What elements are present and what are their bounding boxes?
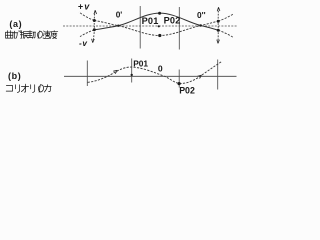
arrowhead on curve right half	[197, 75, 201, 79]
振	[20, 31, 28, 39]
曲	[6, 31, 13, 39]
sensor line P01 (vertical)	[139, 6, 141, 49]
オ	[21, 84, 28, 92]
left end dots	[93, 19, 96, 22]
svg-text:0'': 0''	[197, 10, 206, 20]
left end trajectory arc (dashed vertical)	[93, 11, 95, 43]
solid mode curve (lower end dots, upper centre arc)	[94, 13, 218, 30]
svg-text:0: 0	[158, 63, 163, 73]
right end dots	[217, 20, 220, 23]
arrow down (-v) at left end	[92, 39, 95, 43]
caption kanji 曲げ振動の速度	[6, 31, 58, 39]
right end tick	[217, 60, 219, 90]
動	[28, 31, 36, 39]
centerline (rest axis) of tube, dash-dot	[63, 25, 237, 27]
dashed tail beyond left end, lower	[80, 30, 94, 37]
速	[43, 31, 51, 39]
node dot 0''	[200, 24, 202, 26]
svg-text:P01: P01	[133, 59, 148, 69]
の	[38, 85, 43, 92]
力	[44, 85, 51, 92]
Coriolis force dashed curve	[88, 62, 222, 84]
dashed tail beyond left end, upper	[79, 12, 94, 21]
svg-text:0': 0'	[116, 9, 123, 19]
svg-text:P02: P02	[179, 85, 195, 95]
P01 sensor tick	[131, 59, 133, 83]
axis line	[64, 75, 237, 77]
の	[37, 31, 42, 38]
svg-text:(a): (a)	[9, 19, 22, 29]
svg-text:P01: P01	[142, 16, 159, 26]
度	[51, 31, 58, 39]
arrow up at right end	[217, 7, 220, 11]
P02 sensor tick	[178, 70, 180, 88]
centre antinode dots	[158, 12, 161, 15]
right end trajectory arc (dashed vertical)	[217, 8, 220, 43]
node dot 0'	[117, 25, 119, 27]
げ	[13, 31, 21, 39]
dashed tail beyond right end, upper	[218, 14, 234, 22]
dot at P02 tick / trough	[178, 82, 181, 85]
arrow down at right end	[217, 40, 220, 44]
リ	[31, 85, 35, 93]
dashed mode curve (upper end dots, lower centre arc)	[94, 21, 218, 36]
svg-text:+v: +v	[78, 1, 91, 11]
dashed tail beyond right end, lower	[218, 30, 234, 38]
dot at P01 tick	[131, 74, 133, 76]
svg-text:P02: P02	[164, 16, 181, 26]
left end tick	[86, 61, 88, 87]
caption kana コリオリの力	[6, 84, 51, 92]
svg-text:-v: -v	[79, 39, 87, 48]
コ	[6, 86, 12, 92]
svg-text:(b): (b)	[8, 71, 21, 81]
arrow up (+v) at left end	[94, 10, 97, 14]
sensor line P02 (vertical)	[178, 7, 180, 50]
arrowhead on curve left half	[113, 70, 117, 74]
リ	[15, 85, 19, 93]
